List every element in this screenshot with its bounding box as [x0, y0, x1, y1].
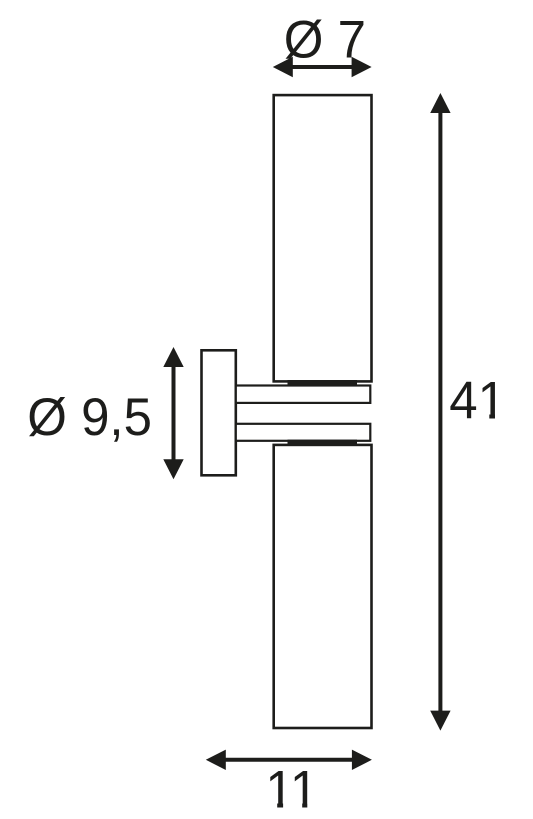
svg-text:Ø 9,5: Ø 9,5	[27, 388, 152, 447]
svg-text:41: 41	[449, 372, 506, 431]
dimension label 41	[449, 372, 506, 431]
svg-text:11: 11	[265, 761, 318, 819]
dimension arrow Ø9,5 vertical left	[163, 347, 183, 479]
upper support arm	[236, 386, 370, 403]
lower support arm	[236, 424, 370, 441]
dimension label Ø 9,5	[27, 388, 152, 447]
svg-text:Ø 7: Ø 7	[284, 11, 366, 70]
bottom tube body	[274, 445, 372, 728]
dimension label 11	[265, 761, 318, 819]
top tube body	[274, 95, 372, 381]
dimension arrow 11 horizontal bottom	[206, 750, 372, 770]
dimension label Ø 7	[284, 11, 366, 70]
dimension arrow 41 vertical right	[430, 93, 450, 731]
wall mounting plate	[202, 350, 236, 475]
lamp holder band bottom	[288, 440, 358, 446]
dimension arrow Ø7 horizontal top	[273, 57, 372, 77]
lamp holder band top	[288, 380, 358, 386]
